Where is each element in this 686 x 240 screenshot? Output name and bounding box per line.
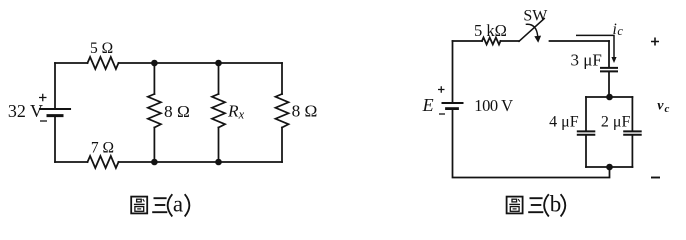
wire: (a) top rail left segment [55,62,88,64]
wire: (a) branch2 lower stub [218,128,220,163]
svg-text:5 kΩ: 5 kΩ [474,21,507,40]
switch SW closing arrow arc [526,24,537,36]
capacitor C2 4uF bottom plate [578,134,595,136]
capacitor C2 4uF top plate [578,130,595,132]
wire: (a) left edge above battery [54,63,56,108]
wire: (b) top rail to switch [501,40,520,42]
wire: (b) right corner down to cap C1 [608,41,610,67]
caption 圖三(b) [507,197,544,214]
switch SW arrowhead [534,36,541,43]
svg-text:b: b [550,191,562,216]
wire: (a) bottom rail left segment [55,161,88,163]
wire: (b) box bottom rail [586,166,632,168]
wire: (a) branch2 upper stub [218,63,220,94]
svg-text:vc: vc [657,99,669,115]
battery E long plate [443,102,463,104]
glyph 三 (b) [528,198,543,212]
node: (a) bottom branch1 junction [151,159,158,166]
glyph 圖 (b) [507,197,523,214]
wire: (b) top rail left segment [453,40,483,42]
svg-text:5 Ω: 5 Ω [90,40,113,57]
battery V1 plus sign [39,94,47,102]
svg-text:4 μF: 4 μF [549,113,579,130]
resistor R 8ohm branch1 zigzag [148,94,161,128]
battery V1 short plate [48,114,62,117]
wire: (a) bottom rail right segment [119,161,283,163]
wire: (b) cap C1 to junction [608,72,610,97]
wire: (b) left edge above battery [452,41,454,102]
svg-text:8 Ω: 8 Ω [292,102,318,121]
wire: (a) left edge below battery [54,117,56,162]
current ic arrowhead [611,57,616,63]
svg-text:8 Ω: 8 Ω [164,102,190,121]
wire: (a) right edge upper [281,63,283,94]
svg-text:100 V: 100 V [474,96,513,115]
node: (a) bottom branch2 junction [215,159,222,166]
svg-text:2 μF: 2 μF [601,113,631,130]
polarity minus bottom right [651,177,660,179]
svg-text:3 μF: 3 μF [570,51,601,70]
resistor R 5ohm zigzag [88,57,119,69]
capacitor C3 2uF top plate [624,130,641,132]
wire: (b) box left upper [585,97,587,130]
svg-text:7 Ω: 7 Ω [91,140,114,157]
caption (a) parentheses [168,194,190,216]
glyph 圖 (a) [131,197,147,214]
wire: (b) bottom return [453,110,610,178]
wire: (a) top rail right segment [119,62,283,64]
capacitor C1 3uF top plate [601,67,617,69]
svg-text:E: E [422,95,434,115]
polarity plus top right [651,38,659,46]
current ic arrow line [576,35,614,57]
battery V1 minus sign [40,120,47,122]
node: (b) box top junction [606,94,613,101]
resistor R 8ohm right zigzag [276,94,289,128]
svg-text:ic: ic [613,21,624,38]
caption 圖三(a) [131,197,167,214]
capacitor C3 2uF bottom plate [624,134,641,136]
svg-text:a: a [173,191,183,216]
resistor R 7ohm zigzag [88,156,119,168]
wire: (b) box right lower [631,136,633,167]
node: (a) top branch1 junction [151,60,158,67]
wire: (b) box top rail [586,96,632,98]
switch SW blade [519,19,544,42]
svg-text:32 V: 32 V [8,101,43,121]
glyph 三 (a) [152,198,167,212]
svg-text:Rx: Rx [227,101,245,121]
resistor R 5k zigzag [482,38,501,45]
node: (b) box bottom junction [606,164,613,171]
wire: (b) box left lower [585,136,587,167]
svg-text:SW: SW [523,7,548,24]
capacitor C1 3uF bottom plate [601,70,617,72]
wire: (a) right edge lower [281,128,283,163]
caption (b) parentheses [544,194,565,216]
wire: (a) branch1 upper stub [153,63,155,94]
battery E plus sign [438,86,445,93]
wire: (a) branch1 lower stub [153,128,155,163]
battery V1 long plate [40,108,70,110]
wire: (b) box right upper [631,97,633,130]
node: (a) top branch2 junction [215,60,222,67]
resistor Rx zigzag [212,94,225,128]
battery E short plate [447,107,458,110]
battery E minus sign [439,113,445,115]
wire: (b) top rail after switch [550,40,610,42]
